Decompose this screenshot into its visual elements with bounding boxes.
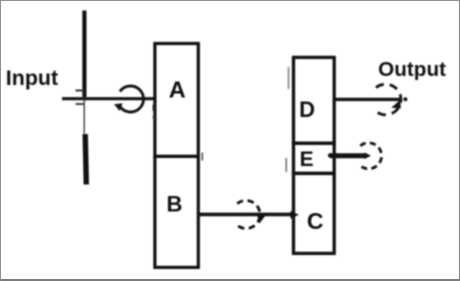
noise tick right of A (201, 153, 203, 161)
E rotation arrow (360, 143, 381, 169)
input gear lower line (85, 134, 86, 185)
svg-text:D: D (299, 97, 315, 122)
input gear tick below shaft (76, 103, 84, 105)
gear C box (294, 173, 335, 253)
svg-text:B: B (166, 192, 182, 217)
gear D box (294, 57, 335, 143)
input shaft (62, 97, 168, 100)
svg-text:Input: Input (6, 67, 58, 90)
input rotation arrow (114, 86, 144, 112)
B-C rotation arrow (237, 201, 266, 229)
input gear upper line (82, 11, 86, 98)
gear E box (294, 143, 335, 173)
svg-text:Output: Output (378, 58, 446, 81)
B to C shaft (200, 211, 299, 219)
E shaft (328, 152, 371, 159)
noise dashes on A left edge (153, 105, 155, 120)
svg-text:E: E (300, 148, 314, 171)
output shaft (334, 97, 407, 101)
input gear tick above shaft (76, 90, 85, 92)
svg-text:A: A (169, 77, 186, 103)
output rotation arrow (376, 84, 401, 115)
noise tick left of E (285, 158, 287, 172)
gear A box (155, 44, 198, 157)
gear B box (155, 156, 198, 267)
svg-text:C: C (307, 208, 324, 234)
noise ticks left of D (288, 67, 290, 89)
input gear thin middle line (83, 100, 85, 134)
